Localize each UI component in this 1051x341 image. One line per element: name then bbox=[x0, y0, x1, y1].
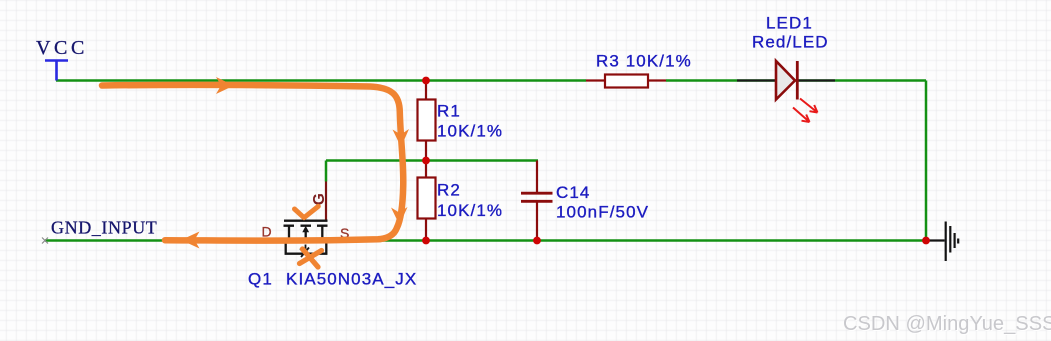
svg-text:C14: C14 bbox=[556, 183, 591, 202]
wire: middle net between R1/R2/C14 and gate bbox=[326, 161, 538, 182]
transistor Q1 gate lead (dark red) bbox=[325, 182, 327, 222]
svg-text:100nF/50V: 100nF/50V bbox=[556, 203, 649, 222]
LED1 light emission arrows bbox=[793, 99, 818, 123]
orange arrowhead down (lower, vertical) bbox=[391, 207, 408, 225]
junction node R2 bottom bbox=[422, 237, 430, 245]
orange arrowhead left (bottom wire) bbox=[181, 232, 200, 249]
body diode bracket bbox=[286, 240, 327, 254]
svg-text:KIA50N03A_JX: KIA50N03A_JX bbox=[286, 270, 417, 289]
junction node R1/R2 middle bbox=[422, 157, 430, 165]
channel segment source side bbox=[317, 226, 328, 240]
orange check mark over gate bbox=[295, 206, 319, 217]
svg-text:Q1: Q1 bbox=[248, 270, 273, 289]
svg-text:10K/1%: 10K/1% bbox=[437, 122, 503, 141]
orange X over body diode bbox=[300, 249, 322, 267]
channel segment middle with substrate arrow bbox=[301, 226, 312, 238]
power port VCC bar bbox=[45, 61, 68, 81]
Q1 body diode mark bbox=[300, 245, 310, 259]
svg-text:D: D bbox=[262, 224, 272, 240]
resistor R2 bbox=[418, 161, 436, 241]
LED1 cathode bar bbox=[796, 61, 799, 100]
svg-text:10K/1%: 10K/1% bbox=[437, 201, 503, 220]
svg-text:Red/LED: Red/LED bbox=[752, 33, 829, 52]
drain pin bbox=[258, 239, 289, 241]
source pin bbox=[322, 239, 354, 241]
orange arrowhead down (upper, vertical) bbox=[393, 129, 410, 147]
transistor Q1 MOSFET body (black) bbox=[258, 221, 354, 254]
junction node ground bbox=[922, 237, 930, 245]
LED D1 pins (black) bbox=[737, 79, 835, 81]
svg-text:R1: R1 bbox=[437, 102, 461, 121]
junction node C14 bottom bbox=[533, 237, 541, 245]
svg-text:R2: R2 bbox=[437, 181, 461, 200]
gate plate bbox=[284, 220, 328, 222]
wire: right vertical drop to ground bbox=[925, 81, 928, 241]
junction node R1 top bbox=[422, 77, 430, 85]
svg-text:R3 10K/1%: R3 10K/1% bbox=[596, 52, 692, 71]
wire: bottom net GND_INPUT horizontal bbox=[45, 239, 926, 242]
wire end no-connect cross at GND_INPUT left bbox=[42, 238, 48, 244]
svg-text:GND_INPUT: GND_INPUT bbox=[51, 217, 157, 237]
ground symbol bbox=[926, 222, 958, 262]
orange arrowhead right (top wire) bbox=[216, 77, 234, 94]
LED1 diode triangle bbox=[776, 61, 795, 100]
svg-text:G: G bbox=[311, 193, 328, 205]
capacitor C14 bbox=[521, 161, 553, 241]
resistor R3 bbox=[586, 75, 666, 88]
svg-text:LED1: LED1 bbox=[766, 14, 813, 33]
Q1 substrate arrowhead bbox=[302, 226, 309, 233]
channel segment drain side bbox=[284, 226, 295, 240]
svg-text:VCC: VCC bbox=[36, 37, 88, 59]
wire: top net VCC horizontal bbox=[56, 79, 926, 82]
resistor R1 bbox=[418, 81, 436, 161]
watermark CSDN bbox=[843, 313, 1051, 336]
highlight: orange current path bbox=[102, 85, 403, 267]
